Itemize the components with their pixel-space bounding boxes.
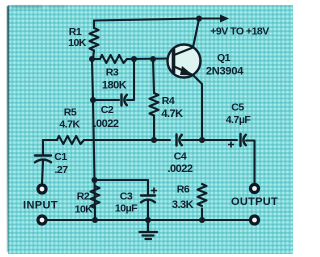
ground [140, 220, 158, 239]
wire C2 stub left [93, 99, 119, 101]
svg-text:180K: 180K [102, 80, 127, 92]
emitter arrowhead Q1 [180, 66, 194, 76]
capacitor C3 [141, 196, 155, 203]
svg-text:10µF: 10µF [115, 203, 138, 215]
wire R1 bottom lead [93, 51, 94, 60]
svg-text:2N3904: 2N3904 [206, 66, 244, 78]
node C3 stub left [92, 177, 98, 183]
wire left vertical [92, 59, 95, 220]
wire C3 bottom lead [147, 201, 149, 220]
wire top supply rail [94, 19, 199, 21]
svg-text:R4: R4 [162, 95, 175, 107]
wire C3 stub [95, 180, 149, 194]
capacitor C5 [241, 134, 246, 146]
wire R1 top lead [93, 21, 95, 29]
supply arrowhead [220, 15, 229, 23]
svg-text:R2: R2 [77, 191, 90, 203]
svg-text:C1: C1 [54, 151, 67, 163]
svg-text:R3: R3 [106, 67, 119, 79]
capacitor C2 [122, 95, 127, 106]
node R3 left [89, 56, 95, 62]
svg-text:INPUT: INPUT [23, 200, 58, 212]
wire R4 bottom lead [153, 116, 155, 141]
svg-text:C4: C4 [174, 151, 187, 163]
node C3 / ground [145, 217, 151, 223]
svg-text:C5: C5 [231, 102, 244, 114]
svg-text:.0022: .0022 [167, 163, 192, 175]
svg-text:10K: 10K [75, 204, 94, 216]
node R4 bottom [151, 137, 157, 143]
svg-text:3.3K: 3.3K [172, 199, 194, 211]
wire C2 stub right [127, 59, 134, 100]
node base / R4 top [150, 56, 156, 62]
svg-text:+9V TO +18V: +9V TO +18V [210, 26, 269, 38]
svg-text:4.7K: 4.7K [59, 119, 80, 131]
svg-text:.27: .27 [54, 164, 68, 176]
resistor R1 [90, 28, 99, 51]
terminal INPUT bottom [38, 216, 46, 224]
wire R6 bottom lead [201, 209, 203, 221]
plus sign C3 [151, 188, 157, 194]
svg-text:C2: C2 [101, 104, 114, 116]
svg-text:4.7µF: 4.7µF [226, 114, 252, 126]
wire R4 top lead [153, 59, 154, 93]
wire supply arrow stub [199, 17, 221, 19]
plus sign C5 [228, 142, 234, 148]
node emitter / mid rail [199, 137, 205, 143]
node R6 bottom [199, 217, 205, 223]
node supply rail junction [196, 16, 202, 22]
svg-text:C3: C3 [120, 191, 133, 203]
node R2 bottom [92, 217, 98, 223]
wire C1 branch [42, 140, 43, 184]
svg-text:.0022: .0022 [93, 118, 118, 130]
resistor R3 [100, 55, 127, 63]
wire bottom rail [47, 219, 249, 221]
resistor R6 [198, 184, 207, 206]
svg-text:4.7K: 4.7K [161, 108, 183, 120]
transistor Q1 [168, 45, 201, 78]
terminal INPUT top [38, 185, 46, 193]
resistor R4 [150, 93, 159, 115]
svg-text:Q1: Q1 [217, 52, 231, 64]
wire base rail [92, 57, 172, 60]
svg-text:R5: R5 [64, 107, 77, 119]
resistor R2 [91, 186, 100, 208]
terminal OUTPUT top [251, 185, 259, 193]
svg-text:10K: 10K [68, 37, 87, 49]
resistor R5 [57, 136, 84, 144]
wire mid rail [43, 140, 255, 183]
node R3 right / C2 top [131, 56, 137, 62]
capacitor C1 [35, 156, 51, 163]
svg-text:R6: R6 [177, 184, 190, 196]
capacitor C4 [177, 135, 182, 146]
terminal OUTPUT bottom [251, 216, 259, 224]
node C2 left [90, 97, 96, 103]
svg-text:OUTPUT: OUTPUT [231, 196, 278, 208]
